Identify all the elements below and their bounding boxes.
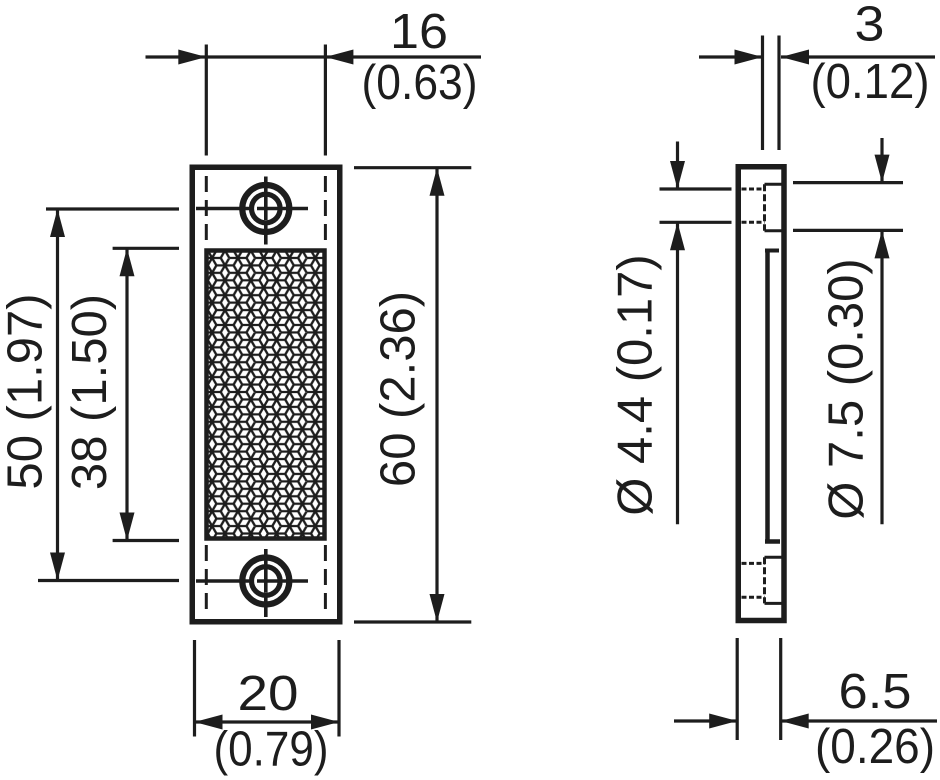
dim 3 line — [699, 55, 935, 58]
dim 16 extension lines — [206, 45, 325, 156]
dim 6.5 right arrow — [781, 714, 809, 729]
side view recess top stub — [765, 249, 779, 253]
svg-text:6.5: 6.5 — [839, 665, 912, 719]
svg-text:60 (2.36): 60 (2.36) — [372, 291, 426, 487]
dim 16 left arrow — [178, 50, 206, 65]
dim 50 line — [56, 209, 59, 581]
svg-text:20: 20 — [238, 667, 299, 721]
svg-text:(0.26): (0.26) — [815, 720, 935, 774]
side top hole hidden lines — [742, 189, 765, 222]
svg-text:50 (1.97): 50 (1.97) — [0, 293, 53, 489]
dim 50 bottom arrow — [50, 553, 65, 581]
side view foil recess line — [765, 251, 770, 542]
side bottom counterbore hidden edge — [763, 557, 766, 603]
svg-text:(0.79): (0.79) — [214, 723, 329, 777]
dim 38 top arrow — [120, 248, 135, 276]
hidden edge dashed line left — [205, 176, 208, 245]
dim 7.5 line top — [880, 138, 883, 183]
hidden edge dashed line right bottom — [324, 545, 327, 616]
dim 7.5 top arrow — [875, 155, 890, 183]
side bottom hole hidden lines — [742, 563, 765, 597]
dim 60 line — [435, 168, 438, 622]
bottom hole centerline horizontal — [196, 579, 308, 583]
top screw hole inner circle — [251, 194, 280, 223]
bottom hole centerline vertical — [264, 549, 268, 617]
dim 4.4 line bottom — [676, 222, 679, 524]
dim 60 top arrow — [430, 168, 445, 196]
dim 60 bottom arrow — [430, 594, 445, 622]
side top counterbore — [765, 184, 784, 230]
top hole centerline vertical — [264, 177, 268, 245]
svg-text:(0.12): (0.12) — [811, 55, 930, 109]
dim 4.4 top arrow — [670, 161, 685, 189]
dim 4.4 line top — [676, 142, 679, 190]
dim 4.4 bottom arrow — [670, 222, 685, 250]
dim 38 extension lines — [113, 248, 179, 540]
dim 16 line — [146, 55, 482, 58]
side view recess bottom stub — [765, 539, 780, 544]
dim 38 line — [125, 248, 128, 540]
svg-text:Ø 7.5 (0.30): Ø 7.5 (0.30) — [820, 258, 874, 519]
dim 6.5 extension lines — [737, 638, 781, 740]
svg-text:16: 16 — [390, 5, 448, 59]
bottom screw hole inner circle — [251, 567, 280, 596]
dim 50 top arrow — [50, 209, 65, 237]
top hole centerline horizontal — [196, 207, 308, 211]
svg-text:Ø 4.4 (0.17): Ø 4.4 (0.17) — [609, 254, 663, 515]
dim 6.5 left arrow — [709, 714, 737, 729]
dim 38 bottom arrow — [120, 513, 135, 541]
front view outer body — [192, 167, 340, 622]
dim 6.5 line — [674, 719, 937, 722]
side bottom counterbore — [765, 557, 784, 603]
dim 20 left arrow — [195, 715, 223, 730]
dim 7.5 extension lines — [793, 183, 903, 231]
reflective foil area (hatched) — [207, 251, 325, 539]
dim 3 right arrow — [781, 50, 809, 65]
dim 60 extension lines — [354, 168, 471, 622]
dim 3 extension lines — [763, 36, 780, 151]
dim 50 extension lines — [38, 209, 179, 581]
side view outer body — [738, 167, 784, 621]
dim 20 extension lines — [195, 640, 340, 737]
svg-text:3: 3 — [855, 0, 885, 52]
svg-text:38 (1.50): 38 (1.50) — [63, 294, 117, 490]
bottom screw hole outer circle — [242, 558, 289, 605]
dim 20 right arrow — [311, 715, 339, 730]
hidden edge dashed line right — [324, 176, 327, 245]
dim 7.5 bottom arrow — [875, 230, 890, 258]
dim 3 left arrow — [735, 50, 763, 65]
hidden edge dashed line left bottom — [205, 545, 208, 616]
dim 7.5 line bottom — [880, 230, 883, 524]
svg-text:(0.63): (0.63) — [362, 56, 478, 110]
side top counterbore hidden edge — [763, 184, 766, 230]
dim 4.4 extension lines — [660, 189, 732, 222]
dim 20 line — [195, 720, 340, 723]
top screw hole outer circle — [242, 185, 289, 232]
dim 16 right arrow — [325, 50, 353, 65]
